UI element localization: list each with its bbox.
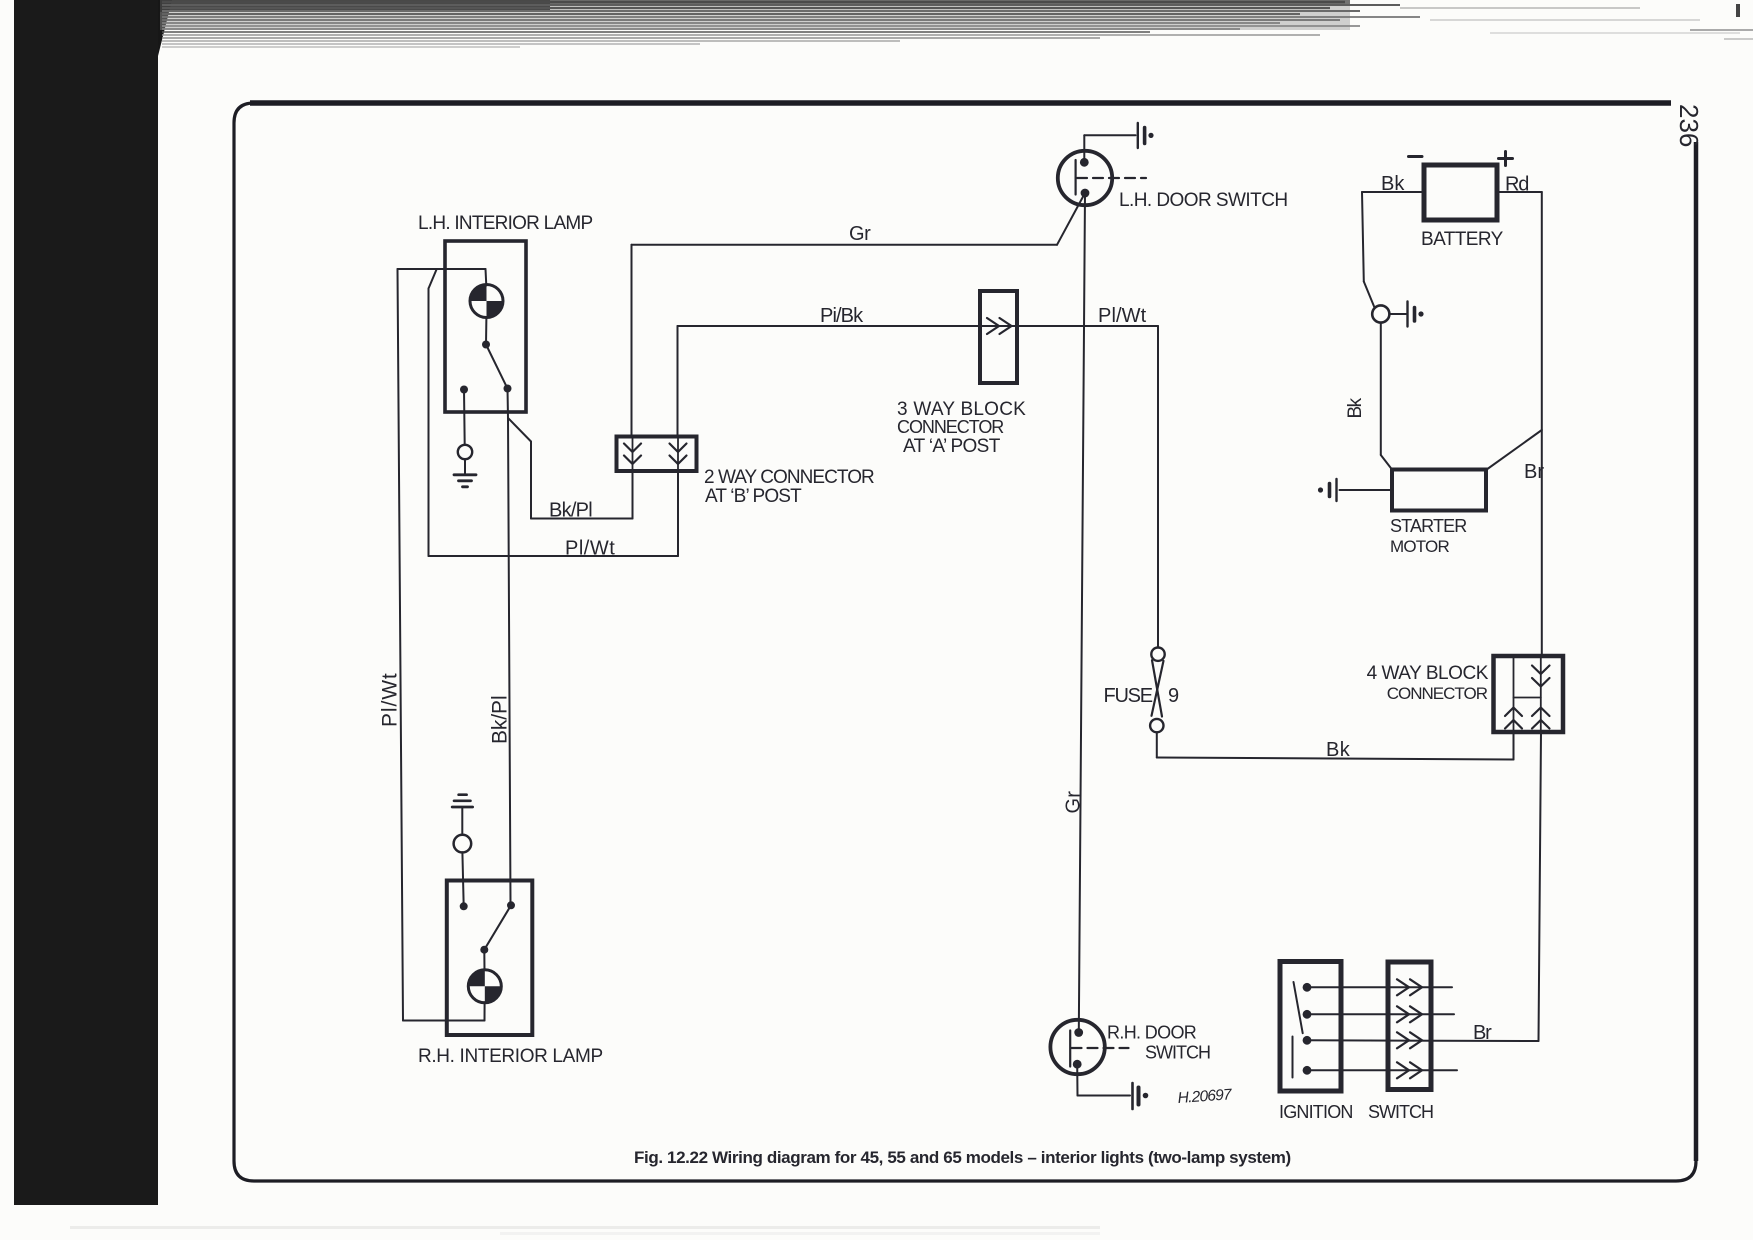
R.H. door switch xyxy=(1050,1020,1128,1074)
wire: L.H. door switch to ground xyxy=(1084,135,1135,162)
wire: Gr from door switch to 2-way connector xyxy=(632,193,1086,437)
wire: long Bk/Pl vertical to R.H. lamp xyxy=(508,418,511,903)
wire: Pl/Wt down to fuse xyxy=(1157,326,1159,648)
faint bottom streaks xyxy=(70,1226,1100,1235)
wire: long Pl/Wt vertical to R.H. lamp xyxy=(398,269,485,1021)
svg-text:2 WAY CONNECTOR: 2 WAY CONNECTOR xyxy=(704,467,874,488)
wire: Pi/Bk run to 3-way connector xyxy=(678,326,1159,437)
ground at L.H. door switch xyxy=(1138,123,1154,148)
svg-text:SWITCH: SWITCH xyxy=(1145,1043,1210,1063)
svg-text:AT ‘B’ POST: AT ‘B’ POST xyxy=(705,486,802,507)
R.H. interior lamp ground xyxy=(452,795,472,907)
wire: Bk down to starter motor xyxy=(1381,323,1392,470)
top scan smudge xyxy=(160,0,1740,47)
svg-text:Bk: Bk xyxy=(1345,397,1366,418)
svg-text:MOTOR: MOTOR xyxy=(1390,537,1449,556)
svg-text:Bk/Pl: Bk/Pl xyxy=(549,500,592,522)
ground at R.H. door switch xyxy=(1133,1083,1149,1109)
ignition switch connector block xyxy=(1388,962,1431,1090)
svg-text:R.H. DOOR: R.H. DOOR xyxy=(1107,1023,1197,1043)
fuse 9 xyxy=(1150,648,1165,733)
svg-text:L.H. INTERIOR LAMP: L.H. INTERIOR LAMP xyxy=(418,213,592,234)
wire: R.H. lamp bulb bottom xyxy=(484,1002,486,1020)
wire: Br horizontal to ignition switch xyxy=(1307,1039,1539,1042)
svg-text:Fig. 12.22 Wiring diagram for: Fig. 12.22 Wiring diagram for 45, 55 and… xyxy=(634,1148,1291,1167)
L.H. interior lamp box xyxy=(445,241,526,412)
3 way block connector at A post xyxy=(980,291,1017,383)
svg-text:IGNITION: IGNITION xyxy=(1279,1102,1353,1122)
ground at isolation switch xyxy=(1390,302,1424,327)
svg-text:Pl/Wt: Pl/Wt xyxy=(1098,305,1147,327)
svg-text:CONNECTOR: CONNECTOR xyxy=(1387,684,1488,703)
scan gutter black band xyxy=(14,0,172,1205)
ignition switch body xyxy=(1280,962,1341,1092)
svg-text:4 WAY BLOCK: 4 WAY BLOCK xyxy=(1367,663,1489,684)
svg-text:Pi/Bk: Pi/Bk xyxy=(820,305,864,327)
svg-text:Pl/Wt: Pl/Wt xyxy=(565,538,615,560)
svg-text:CONNECTOR: CONNECTOR xyxy=(897,417,1004,437)
wire: battery minus to isolation switch xyxy=(1362,192,1424,308)
svg-text:L.H. DOOR SWITCH: L.H. DOOR SWITCH xyxy=(1119,190,1288,211)
page border frame xyxy=(234,103,1696,1181)
battery isolation switch circle xyxy=(1372,305,1389,322)
wire: Br from 4-way connector down xyxy=(1539,732,1542,1041)
wire: branch diagonal to Pl/Wt drop xyxy=(429,270,437,289)
ground at starter motor xyxy=(1318,479,1392,501)
ground below L.H. lamp xyxy=(454,445,476,487)
svg-text:9: 9 xyxy=(1168,685,1179,707)
L.H. door switch xyxy=(1058,151,1146,205)
svg-text:Br: Br xyxy=(1524,461,1544,483)
R.H. lamp switch contacts xyxy=(460,901,515,970)
L.H. lamp bulb xyxy=(470,285,503,318)
svg-text:BATTERY: BATTERY xyxy=(1421,229,1504,250)
svg-text:236: 236 xyxy=(1674,104,1704,147)
svg-text:SWITCH: SWITCH xyxy=(1368,1102,1433,1122)
battery xyxy=(1409,152,1513,221)
wire: L.H. lamp left pin to ground xyxy=(463,390,466,445)
wire: starter diagonal to Rd/Br vertical xyxy=(1486,430,1542,470)
wire: top feed to L.H. lamp bulb xyxy=(398,269,487,286)
wire: Bk from fuse to 4-way connector xyxy=(1157,732,1514,760)
wire: Pl/Wt drop to horizontal run xyxy=(429,289,679,557)
top right corner marks xyxy=(1690,4,1753,40)
svg-text:Gr: Gr xyxy=(849,223,871,245)
wire: battery plus Rd down right side xyxy=(1497,192,1542,656)
svg-text:STARTER: STARTER xyxy=(1390,516,1467,536)
svg-text:Bk: Bk xyxy=(1326,739,1351,761)
2 way connector at B post xyxy=(617,437,697,472)
R.H. interior lamp box xyxy=(447,881,533,1036)
wire: R.H. door switch to ground xyxy=(1077,1065,1130,1096)
svg-text:Pl/Wt: Pl/Wt xyxy=(379,672,402,727)
wire: long Gr vertical to R.H. door switch xyxy=(1079,193,1085,1032)
starter motor xyxy=(1392,470,1486,511)
ignition switch feed wires xyxy=(1307,987,1457,1070)
svg-text:AT ‘A’ POST: AT ‘A’ POST xyxy=(903,436,1001,457)
svg-text:Bk/Pl: Bk/Pl xyxy=(489,695,512,744)
wire: L.H. lamp right pin to Bk/Pl run xyxy=(508,389,633,519)
svg-text:Br: Br xyxy=(1473,1022,1492,1044)
svg-text:Gr: Gr xyxy=(1063,791,1085,814)
R.H. lamp bulb xyxy=(468,970,501,1003)
L.H. lamp switch contacts xyxy=(460,317,512,394)
4 way block connector xyxy=(1494,656,1564,732)
svg-text:R.H. INTERIOR LAMP: R.H. INTERIOR LAMP xyxy=(418,1046,603,1067)
svg-text:FUSE: FUSE xyxy=(1104,685,1153,707)
